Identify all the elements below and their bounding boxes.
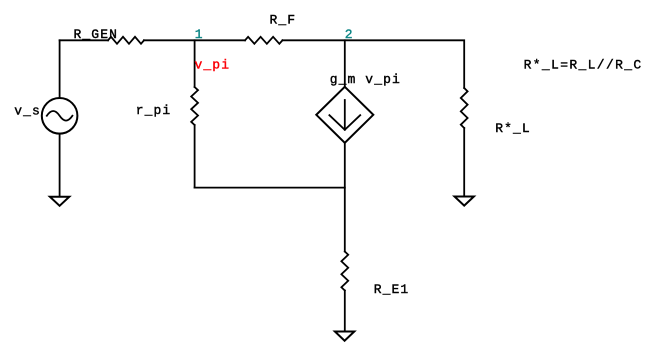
svg-text:R_F: R_F <box>270 12 297 27</box>
ground (bottom, below R_E1) <box>335 332 354 341</box>
voltage source v_s <box>42 98 78 134</box>
svg-text:R*_L: R*_L <box>495 121 531 136</box>
svg-text:R*_L=R_L//R_C: R*_L=R_L//R_C <box>524 57 643 72</box>
resistor R_E1 <box>341 252 348 291</box>
wire: from R_F through node 2 to right corner, down to R*_L <box>283 40 465 88</box>
svg-text:v_s: v_s <box>14 104 41 119</box>
svg-text:g_m v_pi: g_m v_pi <box>330 72 401 87</box>
wire: bottom rail from r_pi column to emitter node <box>195 187 345 189</box>
resistor R_GEN <box>108 37 144 44</box>
ground (left, below v_s) <box>50 197 69 206</box>
svg-text:R_E1: R_E1 <box>374 282 410 297</box>
resistor R*_L <box>461 88 468 128</box>
wire: from R*_L to right ground <box>463 128 465 196</box>
wire: node 2 column from top wire to controlled source <box>344 40 346 87</box>
ground (right, below R*_L) <box>455 197 474 206</box>
svg-text:r_pi: r_pi <box>136 103 172 118</box>
svg-text:1: 1 <box>195 27 204 42</box>
svg-text:R_GEN: R_GEN <box>74 27 119 42</box>
svg-text:v_pi: v_pi <box>195 57 231 72</box>
wire: between R_GEN and R_F (through node 1) <box>144 39 245 41</box>
wire: from R_E1 to bottom ground <box>344 291 346 332</box>
resistor R_F <box>245 37 282 44</box>
controlled current source g_m v_pi (diamond with down arrow) <box>316 87 373 143</box>
wire: node 1 column from top wire to r_pi <box>194 40 196 87</box>
resistor r_pi <box>191 87 198 125</box>
wire: left column from top wire down to v_s <box>59 40 61 98</box>
svg-text:2: 2 <box>345 27 354 42</box>
wire: from source bottom through emitter junction to R_E1 <box>344 143 346 252</box>
wire: from r_pi down to bottom rail <box>194 125 196 188</box>
wire: top segment from v_s to R_GEN <box>60 39 108 41</box>
wire: from v_s bottom to left ground <box>59 134 61 197</box>
